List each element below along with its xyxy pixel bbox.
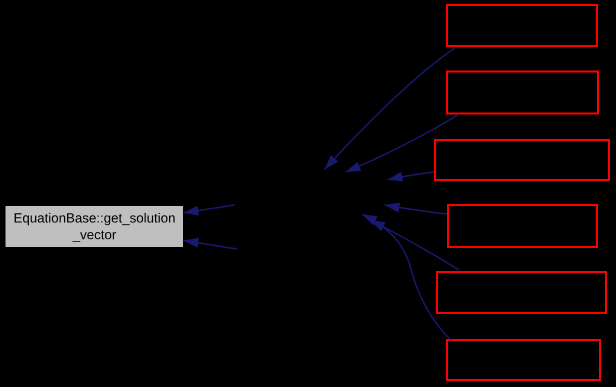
node C5: caller box 5 (red, truncated): [437, 272, 606, 313]
edge E3: caller3 -> middle node M1: [388, 172, 435, 180]
edge E6: caller6 -> middle node M2: [362, 214, 451, 340]
edge E1: caller1 -> middle node M1: [325, 48, 456, 170]
node C6: caller box 6 (red, truncated): [447, 340, 600, 380]
edge E5: caller5 -> middle node M2: [370, 220, 459, 270]
node C2: caller box 2 (red, truncated): [447, 72, 598, 114]
edge E8: middle node M2 -> EquationBase::get_solution_vector: [184, 241, 238, 250]
node U0: EquationBase::get_solution_vector (current node, grey): [6, 206, 184, 247]
edge E7: middle node M1 -> EquationBase::get_solution_vector: [184, 205, 236, 213]
edge E2: caller2 -> middle node M1: [346, 114, 460, 172]
node C1: caller box 1 (red, truncated): [447, 5, 597, 46]
node C3: caller box 3 (red, truncated): [435, 140, 609, 180]
node C4: caller box 4 (red, truncated): [448, 205, 597, 247]
edge E4: caller4 -> middle node M1: [385, 205, 448, 214]
